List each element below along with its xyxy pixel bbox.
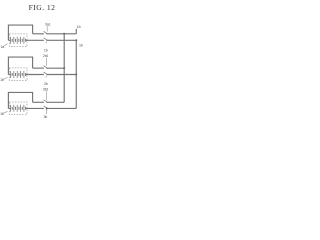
lead line from dot down to label 32 <box>46 109 48 114</box>
lead line to switch S1a <box>46 26 48 31</box>
battery B2 cells <box>11 71 26 78</box>
svg-text:2b1: 2b1 <box>43 54 49 58</box>
wire: switch S1a to terminal stub <box>47 33 76 35</box>
svg-text:FIG. 12: FIG. 12 <box>29 3 56 12</box>
switch S2c blade <box>44 106 47 108</box>
wire: battery B3 to switch S2c <box>26 107 44 109</box>
switch S2b tick <box>45 76 47 78</box>
wire: switch S1a left segment <box>33 33 44 35</box>
wire: switch S2b to right bus <box>47 74 76 76</box>
lead line to box 1a <box>4 44 8 46</box>
svg-text:3a1: 3a1 <box>45 23 51 27</box>
node: junction dot left bus top <box>63 33 65 35</box>
wire: pack1 top lead up-and-over <box>8 25 32 40</box>
terminal stub 11 <box>75 29 77 34</box>
lead line to box 1b <box>3 77 7 79</box>
wire: pack3 top lead up-and-over <box>8 92 32 108</box>
switch S1c blade <box>44 100 47 102</box>
svg-text:1a: 1a <box>0 45 4 49</box>
svg-text:1b: 1b <box>44 48 48 52</box>
switch S2b blade <box>44 72 47 74</box>
switch S1a blade <box>44 31 47 33</box>
node: tee dot row2 upper <box>63 67 65 69</box>
svg-text:3b1: 3b1 <box>43 88 49 92</box>
svg-text:1b: 1b <box>79 43 83 47</box>
right bus line <box>75 40 77 108</box>
battery pack box 1b (dashed) <box>9 68 27 81</box>
wire: battery B2 to switch S2b <box>26 74 44 76</box>
node: junction dot row2 lower <box>75 73 77 75</box>
switch contact nubs <box>43 33 47 109</box>
svg-text:1b: 1b <box>0 112 4 116</box>
switch S1b blade <box>44 66 47 68</box>
lead line to box 1c <box>3 111 7 113</box>
switch S2a blade <box>44 38 47 40</box>
lead line to switch S1c <box>45 91 47 100</box>
wire: battery B1 to switch S2a <box>26 39 44 41</box>
wire: battery B1 left terminal stub <box>8 39 10 41</box>
svg-text:1b: 1b <box>0 78 4 82</box>
svg-text:1b: 1b <box>77 25 81 29</box>
battery B1 cells <box>11 37 26 44</box>
wire: switch S1b left segment <box>33 67 44 69</box>
svg-text:2b: 2b <box>44 82 48 86</box>
battery B3 cells <box>11 105 26 112</box>
battery pack box 1a (dashed) <box>9 34 27 47</box>
lead line to switch S1b <box>45 58 47 66</box>
wire: battery B3 left terminal stub <box>8 107 10 109</box>
switch S2a tick <box>45 42 47 44</box>
wire: switch S2c to right bus corner <box>47 107 76 109</box>
battery pack box 1c (dashed) <box>9 102 27 115</box>
node: junction dot right bus top <box>75 39 77 41</box>
wire: switch S2a to right bus <box>47 39 76 41</box>
svg-text:3b: 3b <box>43 115 47 119</box>
wire: switch S1c left segment <box>33 101 44 103</box>
wire: switch S1c to left bus corner <box>47 101 64 103</box>
wire: battery B2 left terminal stub <box>8 74 10 76</box>
wire: switch S1b to left bus <box>47 67 64 69</box>
wire: pack2 top lead up-and-over <box>8 57 32 74</box>
node: dot on battery B3 wire <box>46 107 48 109</box>
left bus line <box>63 34 65 103</box>
